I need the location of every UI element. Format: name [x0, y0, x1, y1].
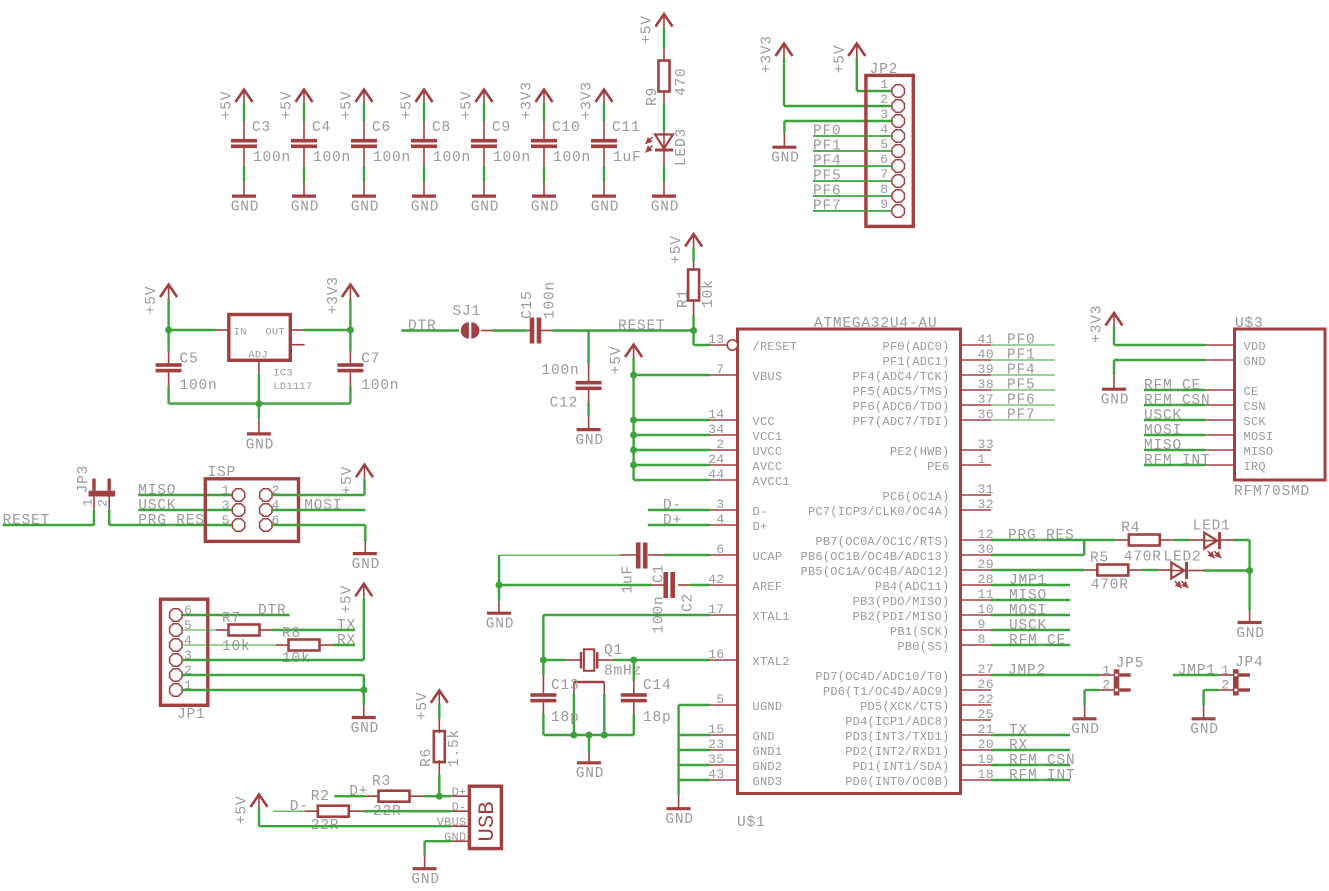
U$1 pin 43 GND3	[710, 779, 738, 781]
svg-text:3: 3	[716, 497, 724, 512]
svg-text:44: 44	[708, 467, 724, 482]
resistor R8 10k	[289, 640, 320, 651]
wire net PF6 to JP2	[813, 195, 891, 197]
wire net PF1 to JP2	[813, 150, 891, 152]
svg-text:4: 4	[184, 633, 192, 648]
junction node OUT/C7/+3V3	[347, 327, 354, 334]
svg-text:5: 5	[880, 137, 888, 152]
supply +3V3 for U$3	[1106, 313, 1123, 326]
svg-text:PB1(SCK): PB1(SCK)	[890, 625, 950, 639]
wire rail to GND	[588, 735, 590, 752]
capacitor C12 100n	[576, 381, 602, 385]
wire RESET node down to C12	[587, 331, 589, 365]
svg-text:LED3: LED3	[674, 128, 690, 166]
U$3 pin MOSI	[1205, 434, 1235, 436]
wire pin 30 branch	[991, 554, 1084, 556]
svg-text:PF1: PF1	[1007, 348, 1036, 364]
U$1 pin 36 PF7(ADC7/TDI)	[961, 419, 992, 421]
svg-text:C7: C7	[361, 352, 380, 368]
U$1 pin 23 GND1	[710, 749, 738, 751]
U$1 pin 34 VCC1	[710, 434, 738, 436]
svg-text:7: 7	[716, 362, 724, 377]
svg-text:100n: 100n	[543, 281, 559, 319]
wire net PF4 to JP2	[813, 165, 891, 167]
svg-text:+5V: +5V	[832, 45, 848, 74]
svg-text:RFM_CE: RFM_CE	[1144, 378, 1201, 394]
svg-text:1: 1	[880, 77, 888, 92]
junction rail 435	[630, 432, 637, 439]
svg-text:RESET: RESET	[3, 513, 51, 529]
wire +5V to C4	[303, 103, 305, 122]
U$3 pin CSN	[1205, 404, 1235, 406]
svg-text:PF7: PF7	[813, 199, 842, 215]
wire RESET node to pin 13	[692, 331, 694, 346]
JP2 pad 5	[892, 145, 904, 157]
svg-text:JP2: JP2	[870, 62, 899, 78]
wire USB GND to ground	[425, 840, 452, 842]
svg-text:USB: USB	[474, 801, 500, 841]
jumper JP5	[1100, 674, 1114, 676]
supply +5V for IC3	[160, 285, 177, 298]
ground below C8	[412, 195, 436, 198]
supply +3V3 for C10	[536, 90, 553, 103]
U$1 pin 8 PB0(SS)	[961, 644, 992, 646]
supply +5V for R1	[685, 234, 702, 247]
svg-text:GND: GND	[246, 437, 275, 453]
U$1 pin 19 PD1(INT1/SDA)	[961, 764, 992, 766]
svg-text:+3V3: +3V3	[580, 81, 596, 119]
ground below C12	[577, 428, 601, 431]
svg-text:RX: RX	[1009, 738, 1028, 754]
wire R4 to LED1	[1160, 539, 1174, 541]
supply +5V for C6	[356, 90, 373, 103]
svg-text:D+: D+	[753, 520, 768, 534]
svg-text:+5V: +5V	[280, 91, 296, 120]
svg-text:PF5(ADC5/TMS): PF5(ADC5/TMS)	[853, 385, 950, 399]
svg-text:4: 4	[880, 122, 888, 137]
U$3 pin CE	[1205, 389, 1235, 391]
junction rail 420	[630, 417, 637, 424]
wire net RFM_CE (U$3)	[1144, 389, 1205, 391]
svg-text:C6: C6	[372, 120, 391, 136]
U$1 pin 33 PE2(HWB)	[961, 449, 992, 451]
ISP pad 1	[232, 489, 244, 501]
wire +3V3 to VDD	[1113, 327, 1115, 345]
U$1 pin 21 PD3(INT3/TXD1)	[961, 734, 992, 736]
svg-text:1: 1	[978, 452, 986, 467]
junction ADJ/ground rail	[255, 400, 262, 407]
svg-text:PF0: PF0	[813, 124, 842, 140]
wire ground rail to pin row 780	[679, 779, 710, 781]
svg-text:JP1: JP1	[177, 707, 206, 723]
capacitor C5 100n	[167, 330, 169, 352]
svg-text:GND: GND	[291, 200, 320, 216]
wire R8 to RX	[319, 644, 332, 646]
svg-text:VBUS: VBUS	[437, 816, 467, 830]
U$1 pin 35 GND2	[710, 764, 738, 766]
svg-text:PF4: PF4	[1007, 363, 1036, 379]
capacitor C4 100n	[291, 139, 317, 143]
resistor R6 1.5k	[434, 731, 445, 762]
supply +5V for JP2	[848, 44, 865, 57]
svg-text:C4: C4	[312, 120, 331, 136]
supply +5V for C9	[476, 90, 493, 103]
wire LED3 to GND	[663, 151, 665, 166]
svg-text:RFM_CSN: RFM_CSN	[1144, 393, 1211, 409]
svg-text:9: 9	[880, 197, 888, 212]
U$1 pin 41 PF0(ADC0)	[961, 344, 992, 346]
U$1 pin 27 PD7(OC4D/ADC10/T0)	[961, 674, 992, 676]
ground below +3V3 (U$3)	[1102, 388, 1126, 391]
svg-text:100n: 100n	[180, 378, 218, 394]
svg-text:GND: GND	[486, 617, 515, 633]
net label D- wire	[648, 509, 710, 511]
svg-text:SJ1: SJ1	[453, 304, 482, 320]
svg-text:PF6: PF6	[1007, 393, 1036, 409]
wire net RFM_CE (U$1 right)	[991, 644, 1070, 646]
wire net JMP1 (U$1 right)	[991, 584, 1070, 586]
wire net MOSI (U$1 right)	[991, 614, 1070, 616]
svg-text:2: 2	[716, 437, 724, 452]
capacitor C8 100n	[411, 139, 437, 143]
junction node +5V/C5/IN	[165, 327, 172, 334]
jumper JP3	[89, 491, 116, 497]
svg-text:PE6: PE6	[927, 460, 949, 474]
wire ISP pad 6 to GND	[273, 524, 366, 526]
U$1 pin 16 XTAL2	[710, 659, 738, 661]
junction rail case pin left	[570, 732, 577, 739]
wire DTR to SJ1	[401, 329, 459, 331]
wire AREF to C2	[690, 584, 710, 586]
svg-text:GND: GND	[411, 872, 440, 888]
voltage regulator IC3 LD1117	[229, 315, 290, 361]
wire +3V3 to C11	[603, 103, 605, 122]
svg-text:R7: R7	[222, 611, 241, 627]
wire C3 to GND	[243, 148, 245, 166]
svg-text:24: 24	[708, 452, 724, 467]
svg-text:1uF: 1uF	[613, 150, 642, 166]
wire net PF0 (U$1 right)	[991, 344, 1055, 346]
wire junction to GND	[363, 690, 365, 705]
capacitor C15 100n	[530, 318, 535, 344]
svg-text:JMP1: JMP1	[1009, 573, 1047, 589]
U$1 pin 1 PE6	[961, 464, 992, 466]
svg-text:C2: C2	[681, 593, 697, 612]
supply +5V for R9	[656, 14, 673, 27]
wire ADJ pin down	[258, 360, 260, 373]
ground below LED3	[652, 195, 676, 198]
ground below JP1	[352, 716, 376, 719]
capacitor C6 100n	[351, 139, 377, 143]
svg-text:UCAP: UCAP	[753, 550, 783, 564]
svg-text:MISO: MISO	[1009, 588, 1047, 604]
JP1 pad 3	[170, 654, 182, 666]
wire junction to GND	[498, 585, 500, 601]
wire JP1 pin 6 DTR	[183, 614, 290, 616]
connector JP2	[866, 75, 913, 226]
junction rail 465	[630, 462, 637, 469]
svg-text:GND: GND	[471, 200, 500, 216]
wire ground rail to GND	[678, 795, 680, 809]
svg-text:GND: GND	[351, 200, 380, 216]
wire net RFM_INT (U$3)	[1144, 464, 1205, 466]
svg-text:RFM_INT: RFM_INT	[1009, 768, 1076, 784]
U$3 pin GND	[1205, 359, 1235, 361]
U$1 pin 31 PC6(OC1A)	[961, 494, 992, 496]
svg-text:PF6(ADC6/TDO): PF6(ADC6/TDO)	[853, 400, 950, 414]
wire C14 to ground rail	[633, 702, 635, 714]
resistor R3 22R	[379, 791, 410, 802]
svg-text:C5: C5	[180, 352, 199, 368]
USB pin D+	[451, 795, 469, 797]
wire R2 to USB D-	[349, 810, 362, 812]
wire +5V to C3	[243, 103, 245, 122]
svg-text:+5V: +5V	[640, 15, 656, 44]
U$1 pin 7 VBUS	[710, 374, 738, 376]
svg-text:13: 13	[708, 332, 724, 347]
wire +5V to JP2 pin 1	[856, 58, 858, 92]
svg-text:PRG_RES: PRG_RES	[1008, 528, 1075, 544]
wire +5V to R6	[438, 705, 440, 720]
supply +3V3 for JP2	[776, 44, 793, 57]
ground below C2	[487, 612, 511, 615]
svg-text:+3V3: +3V3	[520, 81, 536, 119]
svg-text:25: 25	[978, 707, 994, 722]
svg-text:PB4(ADC11): PB4(ADC11)	[875, 580, 950, 594]
junction XTAL2/C14	[630, 657, 637, 664]
U$1 pin 40 PF1(ADC1)	[961, 359, 992, 361]
wire +5V to R9	[663, 28, 665, 48]
svg-text:+5V: +5V	[460, 91, 476, 120]
junction RESET/R1	[690, 327, 697, 334]
svg-text:ATMEGA32U4-AU: ATMEGA32U4-AU	[814, 316, 938, 332]
wire SJ1 to C15	[481, 330, 493, 332]
wire JP1 pin 2 to GND net	[183, 674, 364, 676]
connector JP1	[161, 599, 208, 705]
wire C11 to GND	[603, 148, 605, 166]
USB pin GND	[451, 840, 469, 842]
svg-text:LD1117: LD1117	[273, 381, 312, 393]
wire PRG_RES to R4	[991, 539, 1116, 541]
svg-text:UVCC: UVCC	[753, 445, 783, 459]
svg-text:PB0(SS): PB0(SS)	[897, 640, 949, 654]
wire LED2 to junction	[1189, 570, 1204, 572]
svg-text:35: 35	[708, 752, 724, 767]
svg-text:AVCC: AVCC	[753, 460, 783, 474]
JP1 pad 2	[170, 669, 182, 681]
U$1 pin 38 PF5(ADC5/TMS)	[961, 389, 992, 391]
svg-text:R3: R3	[372, 774, 391, 790]
wire R9 to LED3	[663, 92, 665, 105]
resistor R5 470R	[1097, 565, 1128, 576]
svg-text:1: 1	[1102, 663, 1110, 678]
wire JP5 pin 2 to GND	[1100, 689, 1114, 691]
wire C10 to GND	[543, 148, 545, 166]
svg-text:OUT: OUT	[265, 327, 285, 339]
U$1 pin 17 XTAL1	[710, 614, 738, 616]
svg-text:C13: C13	[551, 678, 580, 694]
svg-text:GND: GND	[351, 721, 380, 737]
svg-text:MOSI: MOSI	[1144, 423, 1182, 439]
wire net RX (U$1 right)	[991, 749, 1070, 751]
svg-text:1: 1	[222, 483, 230, 498]
svg-text:PD2(INT2/RXD1): PD2(INT2/RXD1)	[845, 745, 949, 759]
net label D+ wire	[648, 524, 710, 526]
svg-text:R9: R9	[645, 87, 661, 106]
wire U$3 GND pin to ground	[1114, 359, 1205, 361]
wire ISP pad 2 to +5V	[273, 494, 365, 496]
junction rail gnd tap	[586, 732, 593, 739]
svg-text:PF5: PF5	[813, 169, 842, 185]
wire pin 29 to R5	[991, 569, 1084, 571]
svg-text:RFM70SMD: RFM70SMD	[1234, 484, 1310, 500]
svg-text:18p: 18p	[551, 710, 580, 726]
JP1 pad 4	[170, 639, 182, 651]
supply +5V for JP1	[355, 584, 372, 597]
svg-text:GND1: GND1	[753, 745, 783, 759]
U$3 pin MISO	[1205, 449, 1235, 451]
svg-text:MOSI: MOSI	[304, 498, 342, 514]
svg-text:9: 9	[978, 617, 986, 632]
svg-text:GND: GND	[1244, 355, 1266, 369]
svg-text:VBUS: VBUS	[753, 370, 783, 384]
svg-text:MISO: MISO	[138, 483, 176, 499]
svg-text:PB5(OC1A/OC4B/ADC12): PB5(OC1A/OC4B/ADC12)	[801, 565, 950, 579]
wire JMP2 to JP5	[991, 674, 1100, 676]
svg-text:JMP2: JMP2	[1008, 663, 1046, 679]
U$1 pin 3 D-	[710, 509, 738, 511]
wire +5V to USB VBUS	[258, 809, 260, 827]
svg-text:AVCC1: AVCC1	[753, 475, 790, 489]
junction LED1/LED2 cathodes	[1246, 567, 1253, 574]
U$1 pin 18 PD0(INT0/OC0B)	[961, 779, 992, 781]
svg-text:5: 5	[184, 618, 192, 633]
svg-text:+3V3: +3V3	[1090, 305, 1106, 343]
svg-text:43: 43	[708, 767, 724, 782]
svg-text:C3: C3	[252, 120, 271, 136]
supply +3V3 for IC3 output	[342, 285, 359, 298]
svg-text:D-: D-	[290, 799, 309, 815]
svg-text:1.5k: 1.5k	[447, 729, 463, 767]
wire LED1 to junction	[1221, 539, 1233, 541]
wire JP1 pin 3 to +5V	[183, 659, 364, 661]
resistor R7 10k	[229, 625, 260, 636]
svg-text:GND: GND	[651, 200, 680, 216]
svg-text:C14: C14	[643, 678, 672, 694]
wire C13 from junction	[542, 660, 544, 676]
svg-text:PF1: PF1	[813, 139, 842, 155]
wire net PF7 to JP2	[813, 210, 891, 212]
svg-text:RFM_CSN: RFM_CSN	[1009, 753, 1076, 769]
svg-text:D-: D-	[663, 498, 682, 514]
junction AREF ground	[496, 582, 503, 589]
wire rail to pin row 435	[634, 434, 710, 436]
U$1 pin 25 PD4(ICP1/ADC8)	[961, 719, 992, 721]
svg-text:RESET: RESET	[618, 319, 666, 335]
ISP pad 6	[260, 519, 272, 531]
svg-text:GND: GND	[1071, 722, 1100, 738]
svg-text:PF0(ADC0): PF0(ADC0)	[883, 340, 950, 354]
svg-text:TX: TX	[1009, 723, 1028, 739]
svg-text:+5V: +5V	[235, 796, 251, 825]
U$1 pin 39 PF4(ADC4/TCK)	[961, 374, 992, 376]
svg-text:GND: GND	[665, 812, 694, 828]
svg-text:6: 6	[716, 542, 724, 557]
wire JP1 pin 4 to R8	[183, 644, 276, 646]
junction XTAL1/C13	[540, 657, 547, 664]
ground below C10	[532, 195, 556, 198]
wire +5V to R1	[692, 248, 694, 262]
svg-text:+3V3: +3V3	[760, 35, 776, 73]
U$1 pin 13 /RESET	[710, 344, 727, 346]
wire UGND to ground rail	[679, 704, 710, 706]
svg-text:PF7: PF7	[1007, 408, 1036, 424]
wire MISO to ISP pad 1	[138, 494, 232, 496]
svg-text:8mHz: 8mHz	[604, 664, 642, 680]
capacitor C11 1uF	[591, 139, 617, 143]
svg-text:42: 42	[708, 572, 724, 587]
svg-text:VCC: VCC	[753, 415, 775, 429]
svg-text:100n: 100n	[493, 150, 531, 166]
svg-text:C10: C10	[552, 120, 581, 136]
ISP pad 4	[260, 504, 272, 516]
U$1 pin 44 AVCC1	[710, 479, 738, 481]
svg-text:JP4: JP4	[1235, 655, 1264, 671]
supply +5V for C4	[296, 90, 313, 103]
U$1 pin 32 PC7(ICP3/CLK0/OC4A)	[961, 509, 992, 511]
svg-text:+5V: +5V	[144, 286, 160, 315]
svg-text:100n: 100n	[373, 150, 411, 166]
supply +5V for ISP	[356, 465, 373, 478]
wire net PF4 (U$1 right)	[991, 374, 1055, 376]
ground below LEDs	[1238, 621, 1262, 624]
wire net RFM_CSN (U$1 right)	[991, 764, 1070, 766]
wire net MISO (U$3)	[1144, 449, 1205, 451]
wire net TX (U$1 right)	[991, 734, 1070, 736]
JP2 pad 6	[892, 160, 904, 172]
svg-text:PD5(XCK/CTS): PD5(XCK/CTS)	[860, 700, 949, 714]
svg-text:RFM_INT: RFM_INT	[1144, 453, 1211, 469]
svg-text:/RESET: /RESET	[753, 340, 798, 354]
capacitor C13 18p	[530, 693, 556, 697]
svg-text:100n: 100n	[361, 378, 399, 394]
U$1 pin 14 VCC	[710, 419, 738, 421]
svg-text:MISO: MISO	[1144, 438, 1182, 454]
wire D+ to R3	[334, 795, 366, 797]
svg-text:PD3(INT3/TXD1): PD3(INT3/TXD1)	[845, 730, 949, 744]
svg-text:470R: 470R	[1091, 578, 1129, 594]
wire net PF5 (U$1 right)	[991, 389, 1055, 391]
wire net RFM_INT (U$1 right)	[991, 779, 1070, 781]
svg-text:PD6(T1/OC4D/ADC9): PD6(T1/OC4D/ADC9)	[823, 685, 950, 699]
svg-text:+5V: +5V	[340, 466, 356, 495]
IC3 unused pin stub	[290, 344, 304, 346]
ground below C6	[352, 195, 376, 198]
capacitor C1 1uF	[636, 543, 641, 569]
svg-text:XTAL2: XTAL2	[753, 655, 790, 669]
wire C9 to GND	[483, 148, 485, 166]
svg-text:GND3: GND3	[753, 775, 783, 789]
ground below C9	[472, 195, 496, 198]
svg-text:PF5: PF5	[1007, 378, 1036, 394]
wire C15 to RESET node	[540, 330, 552, 332]
wire +5V to C9	[483, 103, 485, 122]
svg-text:GND: GND	[411, 200, 440, 216]
U$1 pin 30 PB6(OC1B/OC4B/ADC13)	[961, 554, 992, 556]
capacitor C10 100n	[531, 139, 557, 143]
svg-text:JMP1: JMP1	[1178, 663, 1216, 679]
wire rail to pin row 420	[634, 419, 710, 421]
